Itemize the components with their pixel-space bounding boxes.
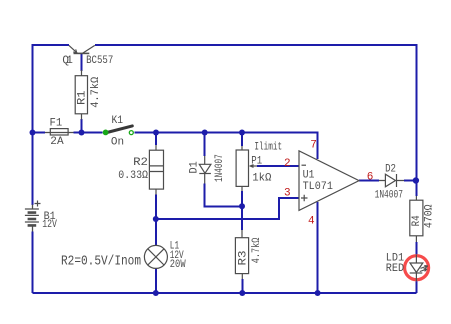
svg-text:1kΩ: 1kΩ bbox=[252, 172, 272, 184]
lamp L1 bbox=[144, 245, 167, 268]
wire bottom rail bbox=[33, 292, 417, 294]
svg-text:7: 7 bbox=[310, 140, 317, 152]
svg-text:R1: R1 bbox=[77, 90, 89, 105]
svg-text:R3: R3 bbox=[237, 251, 249, 266]
svg-text:K1: K1 bbox=[112, 115, 124, 127]
svg-text:F1: F1 bbox=[50, 117, 63, 129]
svg-text:RED: RED bbox=[386, 263, 405, 275]
resistor R1 bbox=[75, 70, 87, 120]
wire op-amp pin4 down to bottom rail bbox=[317, 202, 319, 293]
resistor R2 bbox=[149, 145, 163, 195]
wire left rail lower (battery to bottom rail) bbox=[32, 232, 34, 294]
wire R1 bottom to rail2 bbox=[81, 119, 83, 133]
svg-text:TL071: TL071 bbox=[303, 181, 334, 193]
svg-text:U1: U1 bbox=[303, 169, 315, 181]
junction D1 top bbox=[202, 130, 208, 136]
junction R1 bottom bbox=[79, 130, 85, 136]
wire R3 bottom to bottom rail bbox=[241, 279, 243, 293]
svg-text:On: On bbox=[111, 137, 124, 149]
svg-text:20W: 20W bbox=[170, 259, 186, 271]
junction node D1/P1/R3 bbox=[239, 203, 245, 209]
wire D1 bottom to node bbox=[205, 184, 242, 207]
wire fuse to R1 junction to K1 bbox=[74, 132, 103, 134]
wire op-amp pin6 to D2 bbox=[359, 180, 379, 182]
svg-text:BC557: BC557 bbox=[86, 55, 113, 67]
svg-text:D2: D2 bbox=[385, 164, 396, 176]
svg-text:R2: R2 bbox=[133, 157, 148, 169]
svg-text:12V: 12V bbox=[42, 219, 57, 231]
wire lamp L1 bottom to bottom rail bbox=[155, 269, 157, 294]
wire pin3 net (node to op-amp +) bbox=[156, 198, 299, 219]
svg-text:0.33Ω: 0.33Ω bbox=[118, 170, 148, 182]
junction D2 output / right branch bbox=[413, 177, 419, 183]
junction left rail / rail2 bbox=[30, 130, 36, 136]
LED LD1 bbox=[405, 255, 429, 282]
resistor R4 bbox=[410, 196, 423, 242]
battery B1 bbox=[25, 201, 41, 232]
junction R3 bottom rail bbox=[239, 290, 245, 296]
svg-text:R2=0.5V/Inom: R2=0.5V/Inom bbox=[61, 254, 141, 270]
svg-text:1N4007: 1N4007 bbox=[214, 154, 226, 182]
transistor Q1 BC557 (PNP) bbox=[69, 45, 95, 53]
wire LED bottom to bottom rail bbox=[415, 280, 417, 293]
wire Q1 base down bbox=[81, 54, 83, 71]
svg-text:P1: P1 bbox=[251, 155, 262, 167]
svg-text:6: 6 bbox=[367, 171, 374, 183]
svg-text:2A: 2A bbox=[50, 136, 64, 148]
svg-text:D1: D1 bbox=[188, 161, 200, 174]
wire D1 top bbox=[204, 133, 206, 157]
wire D2 to right branch bbox=[404, 180, 416, 182]
diode D2 bbox=[379, 174, 404, 187]
potentiometer P1 bbox=[236, 146, 257, 191]
svg-text:470Ω: 470Ω bbox=[424, 204, 436, 228]
wire R2 top bbox=[155, 133, 157, 146]
wire left rail upper (to battery) bbox=[32, 45, 34, 205]
wire top rail left segment bbox=[33, 45, 70, 46]
wire P1 bottom to node to R3 bbox=[241, 191, 243, 230]
svg-text:4: 4 bbox=[308, 216, 315, 228]
junction pin4 bottom rail bbox=[315, 290, 321, 296]
fuse F1 bbox=[45, 129, 74, 135]
junction node R2/L1/pin3 bbox=[153, 216, 159, 222]
wire P1 wiper to op-amp pin2 bbox=[257, 165, 299, 167]
svg-text:2: 2 bbox=[284, 158, 291, 170]
svg-text:4.7kΩ: 4.7kΩ bbox=[90, 76, 102, 107]
svg-text:Q1: Q1 bbox=[62, 55, 73, 67]
svg-text:1N4007: 1N4007 bbox=[375, 190, 403, 202]
wire R2 bottom to node bbox=[155, 195, 157, 220]
junction L1 bottom rail bbox=[153, 290, 159, 296]
wire P1 top bbox=[241, 133, 243, 147]
op-amp U1 TL071 bbox=[299, 151, 359, 211]
wire top rail right segment + right branch down bbox=[95, 45, 416, 196]
wire R4 bottom to LED bbox=[415, 242, 417, 255]
resistor R3 bbox=[235, 230, 248, 279]
svg-text:R4: R4 bbox=[411, 215, 423, 226]
wire K1 to pin7 corner down to op-amp bbox=[135, 133, 318, 160]
junction R2 top bbox=[153, 130, 159, 136]
svg-text:Ilimit: Ilimit bbox=[254, 141, 282, 153]
diode D1 bbox=[199, 156, 211, 184]
wire rail2 left stub (left rail to fuse) bbox=[33, 132, 46, 134]
svg-text:3: 3 bbox=[284, 188, 291, 200]
wire node to lamp L1 bbox=[155, 219, 157, 246]
junction P1 top bbox=[239, 130, 245, 136]
switch K1 bbox=[103, 126, 134, 135]
svg-text:4.7kΩ: 4.7kΩ bbox=[251, 237, 263, 263]
